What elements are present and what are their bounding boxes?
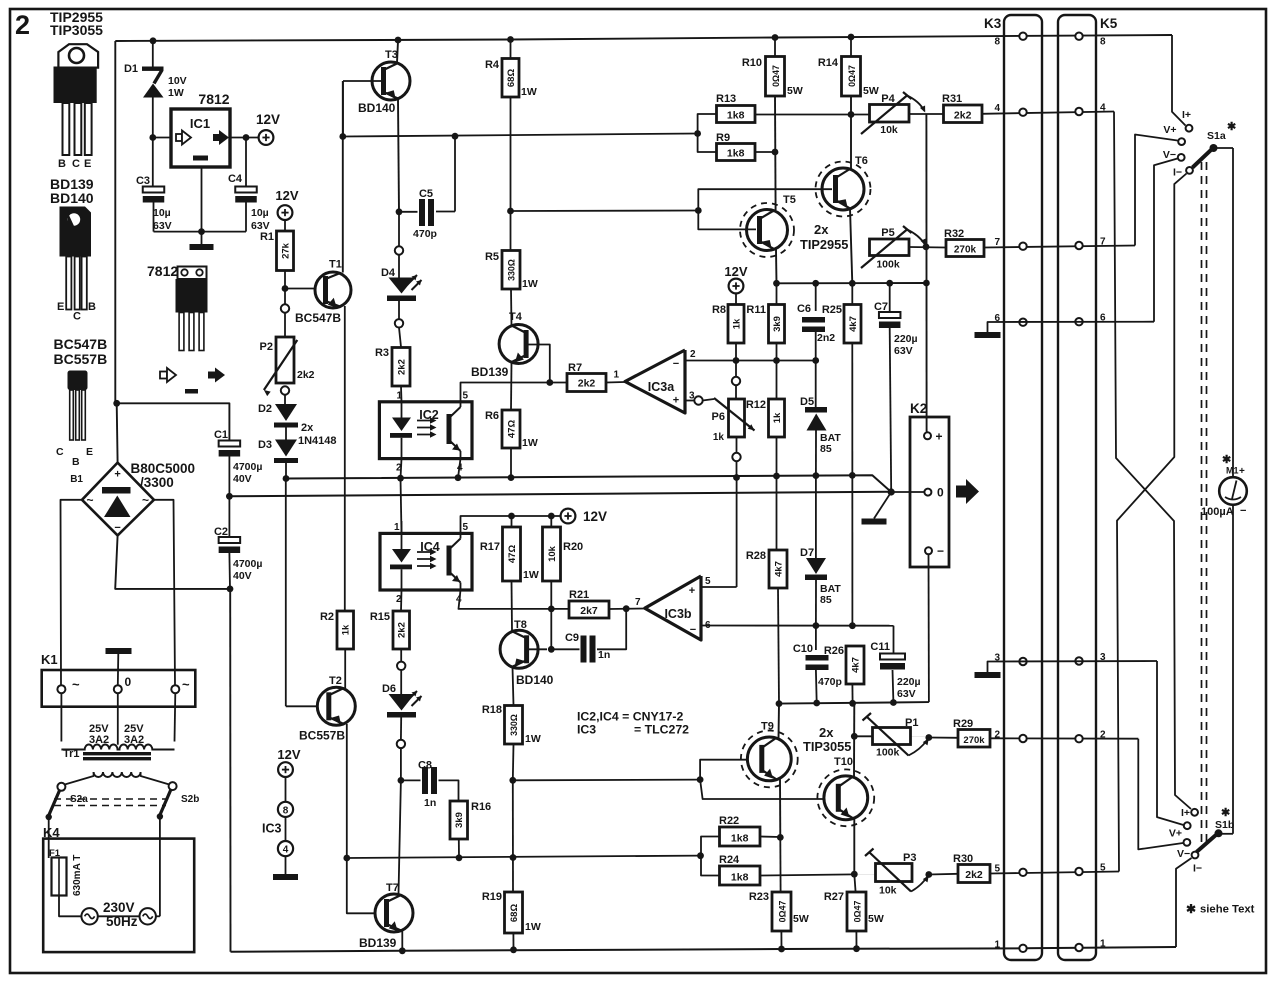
svg-text:E: E [57, 301, 64, 313]
svg-text:~: ~ [182, 677, 190, 692]
svg-text:B80C5000: B80C5000 [131, 461, 196, 476]
svg-text:T1: T1 [329, 259, 342, 271]
svg-text:R8: R8 [712, 304, 726, 316]
svg-text:T9: T9 [761, 721, 774, 733]
ground row3 [975, 672, 1001, 678]
P2 wiper arrow [264, 340, 297, 390]
svg-text:✱: ✱ [1186, 902, 1196, 916]
svg-text:−: − [673, 358, 679, 370]
wire K1-0 center tap [117, 693, 119, 745]
wire R4 to R5 [510, 97, 512, 251]
svg-text:BD140: BD140 [516, 673, 554, 687]
svg-text:R19: R19 [482, 891, 502, 903]
svg-text:100k: 100k [876, 747, 900, 759]
svg-text:P4: P4 [881, 93, 895, 105]
node D6 line / C8 [398, 777, 405, 784]
svg-text:IC3b: IC3b [664, 607, 691, 621]
svg-text:R22: R22 [719, 815, 739, 827]
capacitor C2 4700u 40V [219, 537, 241, 543]
wire T5 base [698, 211, 756, 230]
node R4/R5 junction [507, 208, 514, 215]
svg-text:5: 5 [994, 863, 1000, 874]
node R9 right [772, 149, 779, 156]
wire row2 to S1b V- [1138, 739, 1183, 850]
svg-text:IC3: IC3 [577, 723, 596, 737]
transistor T6 TIP2955 [822, 168, 864, 210]
node base split [695, 207, 702, 214]
node T7 emitter [399, 947, 406, 954]
wire to T7 collector [399, 780, 401, 894]
node B1- / C2- [227, 586, 234, 593]
svg-text:BC557B: BC557B [54, 351, 108, 367]
svg-text:1W: 1W [525, 921, 541, 933]
node R16 bottom [456, 854, 463, 861]
svg-text:P5: P5 [881, 227, 894, 239]
svg-text:V−: V− [1163, 149, 1176, 161]
svg-text:2x: 2x [814, 222, 829, 237]
ground above K1 center [106, 648, 132, 654]
svg-text:1W: 1W [521, 86, 537, 98]
K3 pin 8 [1019, 33, 1026, 40]
wire R6 to 0 bus [510, 448, 512, 478]
svg-text:2: 2 [15, 10, 30, 40]
svg-text:T6: T6 [855, 155, 868, 167]
K3 pin 1 [1019, 945, 1026, 952]
trimpot P2 2k2 [276, 337, 294, 383]
wire T9 collector [778, 704, 781, 738]
svg-text:V−: V− [1177, 848, 1190, 860]
switch S1b contacts [1191, 809, 1198, 816]
wire R22/R24 left vertical [701, 837, 720, 876]
svg-text:1: 1 [394, 522, 400, 533]
node base-feed to R13/R9 [694, 130, 701, 137]
svg-text:T10: T10 [834, 756, 853, 768]
node C6/D5 on pin2 wire [812, 357, 819, 364]
svg-text:1n: 1n [598, 649, 610, 661]
svg-text:T3: T3 [385, 49, 398, 61]
svg-text:2k7: 2k7 [580, 605, 598, 617]
node on +out line [923, 280, 930, 287]
node R27 bottom [853, 945, 860, 952]
node R1/T1 base [282, 285, 289, 292]
node T4 base on pin5 wire [546, 379, 553, 386]
resistor R15 2k2 [400, 590, 403, 611]
K2 pin 0 [924, 489, 931, 496]
wire T5 collector [775, 250, 778, 284]
wire row6 with ground stub [988, 322, 1155, 332]
svg-text:12V: 12V [277, 747, 300, 762]
pin circle below D4 [395, 319, 403, 327]
K5 pin 2 [1075, 735, 1082, 742]
svg-text:E: E [84, 158, 91, 170]
diode D2 1N4148 [275, 404, 297, 421]
resistor R7 2k2 [567, 374, 606, 392]
node T2 collector [343, 855, 350, 862]
wire upper 0 bus [286, 475, 891, 492]
K3 pin 7 [1019, 243, 1026, 250]
S2 mechanical link dashed [54, 798, 166, 800]
resistor R22 1k8 [720, 827, 761, 846]
node D7/C10 on pin6 [813, 622, 820, 629]
pin circle below P2 [281, 386, 289, 394]
resistor R5 330ohm 1W [502, 251, 520, 290]
wire T3 base [343, 80, 384, 82]
svg-text:12V: 12V [275, 188, 298, 203]
svg-text:siehe Text: siehe Text [1200, 904, 1255, 916]
wire C1 bottom / C2 top [228, 457, 230, 538]
node: T3 emitter on rail [395, 37, 402, 44]
wire IC1 out to 12V [230, 137, 259, 139]
svg-text:2k2: 2k2 [578, 378, 596, 390]
wire T3 collector row to T5/T6 bases [511, 210, 699, 213]
wire down to R19 [512, 780, 514, 892]
K3 pin 2 [1019, 735, 1026, 742]
svg-text:R1: R1 [260, 231, 274, 243]
wire T10 base [700, 780, 833, 799]
transistor T4 BD139 [499, 325, 538, 364]
svg-text:S2b: S2b [181, 794, 199, 805]
svg-text:R20: R20 [563, 541, 583, 553]
7812 input arrow (white) [160, 372, 167, 379]
wire IC4 pin4 [459, 590, 570, 609]
node C5 left / T3 collector [396, 208, 403, 215]
node R26 top [849, 622, 856, 629]
node D3 on 0 bus [283, 475, 290, 482]
wire K1 left to winding [60, 693, 62, 741]
wire IC2 pin4 to 0 bus [458, 459, 461, 478]
K5 pin 3 [1075, 657, 1082, 664]
node T1 collector / base feed [339, 133, 346, 140]
svg-text:63V: 63V [894, 345, 913, 357]
svg-text:C6: C6 [797, 303, 811, 315]
svg-text:3k9: 3k9 [772, 316, 783, 332]
wire C3 to gnd rail [153, 203, 155, 232]
svg-text:K3: K3 [984, 16, 1002, 31]
node R6 on 0 bus [508, 474, 515, 481]
transistor T10 TIP3055 [824, 776, 868, 820]
svg-text:R28: R28 [746, 550, 766, 562]
transistor T9 TIP3055 [747, 737, 791, 781]
node R17 top [508, 513, 515, 520]
svg-text:2n2: 2n2 [817, 332, 835, 344]
svg-text:I−: I− [1193, 863, 1202, 875]
svg-text:470p: 470p [818, 676, 842, 688]
op-amp IC3a [625, 350, 685, 413]
resistor R30 2k2 [929, 873, 958, 876]
svg-text:IC1: IC1 [190, 116, 210, 131]
P5 wiper arrow [861, 230, 907, 269]
wire R17 to T8 [511, 581, 514, 631]
svg-text:V+: V+ [1163, 124, 1176, 136]
output arrow [956, 486, 966, 498]
svg-text:0Ω47: 0Ω47 [771, 65, 781, 87]
K5 pin 8 [1075, 33, 1082, 40]
svg-text:B: B [88, 301, 96, 313]
svg-text:0: 0 [125, 675, 132, 689]
wire S1b pivot to meter [1219, 833, 1234, 835]
svg-text:B: B [58, 158, 66, 170]
S1b lever [1197, 834, 1218, 852]
svg-text:✱: ✱ [1227, 121, 1236, 133]
svg-text:R31: R31 [942, 93, 962, 105]
svg-text:5: 5 [463, 522, 469, 533]
wire S1a pivot to meter [1214, 147, 1234, 149]
svg-text:R7: R7 [568, 362, 582, 374]
zener diode D1 10V 1W [152, 41, 154, 67]
wire row4 to X to S1b I+ [1114, 112, 1191, 810]
wire R14 to T6 emitter [850, 96, 852, 169]
node P3/R30 [925, 871, 932, 878]
optocoupler IC4 CNY17-2 [380, 533, 472, 590]
svg-text:8: 8 [994, 37, 1000, 48]
S2b lever [160, 790, 171, 815]
Tr1 core [83, 752, 151, 755]
K3 pin 6 [1019, 319, 1026, 326]
svg-text:2x: 2x [819, 725, 834, 740]
svg-text:R10: R10 [742, 57, 762, 69]
svg-text:1W: 1W [522, 278, 538, 290]
node R26 bottom [849, 700, 856, 707]
svg-text:100k: 100k [876, 259, 900, 271]
wire R31 to K3/K5 row4 [982, 112, 1114, 114]
resistor R25 4k7 [851, 283, 853, 304]
svg-text:2x: 2x [301, 422, 314, 434]
svg-text:4k7: 4k7 [850, 657, 861, 673]
12V supply point above R8 [729, 279, 744, 294]
svg-text:R32: R32 [944, 228, 964, 240]
svg-text:5: 5 [1100, 863, 1106, 874]
svg-text:✱: ✱ [1222, 454, 1231, 466]
wire S2a to F1 [48, 817, 50, 858]
wire IC3a pin2 [685, 360, 816, 362]
svg-text:~: ~ [86, 493, 93, 507]
K2 pin - [925, 547, 932, 554]
svg-text:5W: 5W [863, 85, 879, 97]
wire T4 base tap [527, 345, 550, 383]
wire R1 to P2 [284, 271, 286, 305]
svg-text:68Ω: 68Ω [509, 904, 520, 923]
node IC1 input [149, 134, 156, 141]
wire T9 base riser [700, 760, 757, 780]
wire: top positive rail [115, 35, 1172, 41]
wire R20 to C9 node [550, 581, 552, 649]
svg-text:C5: C5 [419, 188, 433, 200]
svg-text:IC2,IC4 = CNY17-2: IC2,IC4 = CNY17-2 [577, 710, 683, 724]
svg-text:4700µ: 4700µ [233, 558, 262, 570]
svg-text:K5: K5 [1100, 16, 1118, 31]
svg-text:2: 2 [994, 730, 1000, 741]
svg-text:7: 7 [635, 597, 641, 608]
svg-text:C3: C3 [136, 175, 150, 187]
wire C2 bottom [228, 553, 231, 589]
wire P5 to R32 [909, 246, 946, 249]
svg-text:270k: 270k [954, 245, 977, 256]
node C11 bottom [890, 699, 897, 706]
wire T8 base [527, 648, 547, 650]
svg-text:R2: R2 [320, 611, 334, 623]
node T5 collector [773, 280, 780, 287]
wire row6 to S1a V- [1154, 159, 1178, 322]
node P1/R29 [925, 734, 932, 741]
resistor R10 0ohm47 5W [774, 38, 776, 57]
wire D1 node to IC1 in [153, 137, 171, 139]
resistor R14 0ohm47 5W [850, 37, 852, 57]
wire T2 base [286, 705, 325, 707]
svg-text:4: 4 [994, 103, 1000, 114]
wire row8 to S1a I+ [1172, 35, 1186, 126]
node bus to R22/R24 [697, 852, 704, 859]
svg-text:C10: C10 [793, 643, 813, 655]
svg-text:R26: R26 [824, 645, 844, 657]
svg-text:2k2: 2k2 [965, 869, 983, 881]
svg-text:27k: 27k [280, 242, 291, 259]
svg-text:8: 8 [283, 805, 289, 816]
wire to D4 [398, 212, 400, 250]
svg-text:C9: C9 [565, 632, 579, 644]
svg-text:BC547B: BC547B [295, 311, 341, 325]
ground under IC1 [190, 244, 214, 250]
ground at 0 bus [862, 519, 887, 525]
12V supply point (IC1 output) [259, 130, 274, 145]
wire 0 bus to IC3b pin5 [736, 478, 738, 588]
wire lower 0 bus [229, 492, 891, 497]
K5 pin 6 [1075, 318, 1082, 325]
svg-text:85: 85 [820, 594, 832, 606]
wire B1- [115, 535, 230, 589]
svg-text:D7: D7 [800, 547, 814, 559]
wire R18 row to T9/T10 base feed [513, 779, 700, 782]
svg-text:I+: I+ [1181, 807, 1190, 819]
svg-text:R11: R11 [746, 304, 766, 316]
svg-text:10V: 10V [168, 75, 187, 87]
svg-text:2: 2 [1100, 730, 1106, 741]
resistor R27 0ohm47 5W [854, 874, 855, 892]
node P6 on 0 bus [733, 474, 740, 481]
resistor R26 4k7 [846, 646, 864, 684]
resistor R23 0ohm47 5W [779, 837, 781, 892]
svg-text:D2: D2 [258, 403, 272, 415]
svg-text:5W: 5W [793, 913, 809, 925]
wire -V down to bottom rail [229, 589, 231, 952]
transistor T5 TIP2955 [747, 210, 788, 251]
svg-text:BD139: BD139 [359, 936, 397, 950]
capacitor C8 1n [401, 779, 421, 781]
svg-text:1k8: 1k8 [727, 110, 745, 122]
svg-text:+: + [114, 469, 120, 481]
svg-text:230V: 230V [103, 900, 135, 915]
svg-text:C4: C4 [228, 173, 243, 185]
svg-text:630mA T: 630mA T [72, 855, 83, 896]
node IC1 gnd [198, 228, 205, 235]
svg-text:10k: 10k [879, 885, 897, 897]
wire 0 bus to ground [874, 492, 891, 519]
K5 pin 1 [1075, 944, 1082, 951]
svg-text:47Ω: 47Ω [506, 420, 517, 439]
svg-text:E: E [86, 446, 93, 458]
node R19 top row [510, 854, 517, 861]
svg-text:T4: T4 [509, 311, 523, 323]
AC source circle left [81, 908, 97, 924]
svg-text:1: 1 [1100, 939, 1106, 950]
wire T3 collector down [398, 100, 399, 212]
wire R11/R12/R28 column [776, 283, 778, 304]
svg-text:−: − [1240, 505, 1246, 517]
svg-text:BC557B: BC557B [299, 729, 345, 743]
svg-text:5W: 5W [787, 85, 803, 97]
svg-text:BC547B: BC547B [54, 336, 108, 352]
svg-text:R18: R18 [482, 704, 502, 716]
svg-text:7812: 7812 [147, 263, 178, 279]
wire K2- down [928, 555, 930, 702]
wire R5 to T4 collector [510, 289, 513, 326]
trimpot P4 10k [870, 105, 910, 123]
wire B1+ up [116, 403, 119, 462]
wire T2 collector down [346, 724, 348, 858]
node R23 bottom [778, 946, 785, 953]
wire T10 col to P1 [854, 735, 872, 737]
svg-text:IC3: IC3 [262, 822, 282, 836]
node R20/R21 [548, 606, 555, 613]
svg-text:T2: T2 [329, 675, 342, 687]
svg-text:3k9: 3k9 [454, 812, 465, 828]
wire R29 to K3/K5 row2 [990, 737, 1138, 739]
svg-text:D6: D6 [382, 683, 396, 695]
K2 pin + [924, 432, 931, 439]
svg-text:R16: R16 [471, 801, 491, 813]
capacitor C11 220u 63V [893, 626, 895, 654]
resistor R3 2k2 [392, 348, 410, 387]
wire collector bus y=283 [777, 282, 927, 284]
transistor T3 BD140 [372, 62, 410, 100]
resistor R20 10k [550, 516, 552, 527]
12V supply point above R1 [278, 205, 293, 220]
node R22/R23/T9e [777, 834, 784, 841]
svg-text:1W: 1W [523, 569, 539, 581]
svg-text:1W: 1W [525, 733, 541, 745]
svg-text:1: 1 [397, 391, 403, 402]
svg-text:R5: R5 [485, 251, 499, 263]
wire R32 to K3/K5 row7 [984, 246, 1135, 248]
node P5/R32 on +out line [923, 243, 930, 250]
node R13 right / P4 wire [848, 111, 855, 118]
node R18 bottom [509, 777, 516, 784]
svg-text:4k7: 4k7 [773, 561, 784, 577]
svg-text:7: 7 [994, 237, 1000, 248]
svg-text:470p: 470p [413, 228, 437, 240]
svg-text:47Ω: 47Ω [507, 545, 518, 564]
node R11 on pin2 wire [773, 357, 780, 364]
wire bottom rail [231, 947, 1177, 952]
svg-text:+: + [936, 430, 943, 444]
node C9 left / T8 base [548, 646, 555, 653]
wire K1 right to winding [174, 693, 177, 741]
wire R16 to bus [458, 839, 460, 858]
wire B1 ~ right [154, 500, 175, 685]
svg-text:68Ω: 68Ω [506, 69, 517, 88]
svg-text:1: 1 [614, 370, 620, 381]
wire D1 to C3/IC1 input [152, 95, 154, 187]
node: R14 top on rail [848, 34, 855, 41]
svg-text:2k2: 2k2 [397, 622, 408, 638]
node R19 bottom [510, 946, 517, 953]
wire row3 with ground stub [988, 661, 1158, 672]
resistor R13 1k8 [717, 106, 756, 123]
svg-text:D1: D1 [124, 63, 138, 75]
svg-text:1W: 1W [168, 87, 184, 99]
svg-text:B1: B1 [70, 474, 83, 485]
svg-text:C: C [56, 446, 64, 458]
switch S1a contacts [1186, 125, 1193, 132]
